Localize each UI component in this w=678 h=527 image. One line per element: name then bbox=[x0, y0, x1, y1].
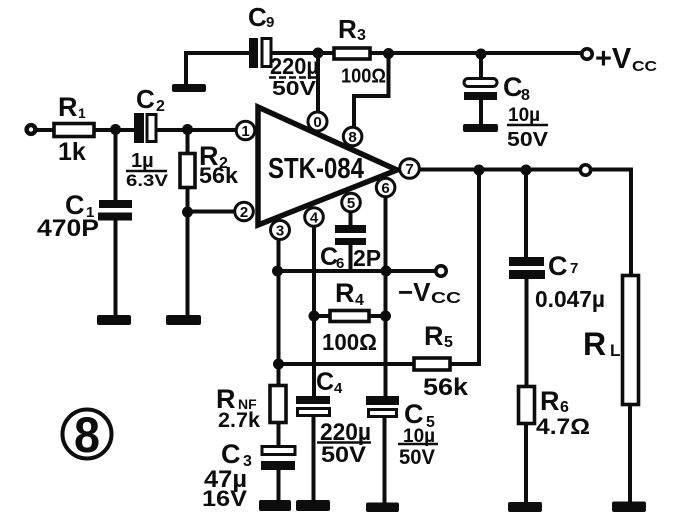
svg-text:1k: 1k bbox=[58, 138, 86, 166]
svg-text:8: 8 bbox=[74, 407, 100, 463]
svg-text:4: 4 bbox=[355, 292, 364, 309]
svg-text:1: 1 bbox=[78, 105, 86, 121]
svg-text:10µ: 10µ bbox=[508, 105, 540, 126]
svg-text:C: C bbox=[503, 72, 523, 102]
svg-text:CC: CC bbox=[632, 58, 657, 75]
svg-text:5: 5 bbox=[347, 195, 355, 212]
svg-text:50V: 50V bbox=[399, 446, 435, 469]
svg-text:8: 8 bbox=[348, 129, 356, 146]
svg-text:470P: 470P bbox=[37, 215, 99, 242]
svg-text:6: 6 bbox=[381, 180, 389, 197]
svg-text:0.047µ: 0.047µ bbox=[535, 286, 605, 312]
svg-text:6.3V: 6.3V bbox=[126, 171, 169, 190]
svg-text:9: 9 bbox=[266, 14, 274, 31]
svg-text:4: 4 bbox=[310, 210, 319, 227]
svg-text:1µ: 1µ bbox=[131, 150, 154, 172]
svg-text:220µ: 220µ bbox=[270, 53, 319, 79]
svg-text:0: 0 bbox=[313, 114, 321, 131]
svg-text:R: R bbox=[58, 92, 78, 122]
svg-text:2: 2 bbox=[156, 98, 165, 115]
svg-text:C: C bbox=[404, 399, 424, 429]
svg-text:C: C bbox=[221, 439, 241, 469]
svg-text:R: R bbox=[335, 278, 355, 308]
svg-text:6: 6 bbox=[336, 255, 344, 272]
svg-text:50V: 50V bbox=[272, 78, 317, 100]
svg-text:1: 1 bbox=[241, 123, 249, 140]
svg-text:2.7k: 2.7k bbox=[218, 409, 260, 432]
svg-text:5: 5 bbox=[444, 334, 453, 351]
svg-text:C: C bbox=[136, 84, 155, 114]
svg-text:C: C bbox=[548, 251, 568, 281]
svg-text:56k: 56k bbox=[199, 163, 239, 188]
svg-text:7: 7 bbox=[405, 161, 413, 178]
svg-text:C: C bbox=[248, 2, 267, 32]
svg-text:L: L bbox=[610, 341, 620, 360]
svg-text:STK-084: STK-084 bbox=[268, 153, 364, 185]
svg-text:R: R bbox=[424, 321, 444, 351]
svg-text:CC: CC bbox=[431, 290, 462, 307]
svg-text:2: 2 bbox=[240, 204, 248, 221]
svg-text:4: 4 bbox=[334, 380, 343, 397]
svg-text:100Ω: 100Ω bbox=[341, 66, 386, 88]
svg-text:+V: +V bbox=[595, 43, 632, 75]
svg-text:4.7Ω: 4.7Ω bbox=[536, 414, 590, 439]
svg-text:7: 7 bbox=[570, 260, 578, 277]
svg-text:R: R bbox=[338, 14, 357, 44]
svg-text:2P: 2P bbox=[353, 245, 381, 271]
svg-text:R: R bbox=[540, 386, 560, 416]
svg-text:R: R bbox=[583, 326, 606, 362]
svg-text:10µ: 10µ bbox=[403, 426, 435, 447]
svg-text:3: 3 bbox=[276, 223, 284, 240]
svg-text:8: 8 bbox=[521, 87, 530, 104]
svg-text:3: 3 bbox=[357, 27, 366, 44]
svg-text:−V: −V bbox=[398, 277, 431, 307]
svg-text:50V: 50V bbox=[507, 129, 549, 151]
svg-text:50V: 50V bbox=[321, 442, 366, 467]
svg-text:56k: 56k bbox=[423, 374, 469, 401]
svg-text:100Ω: 100Ω bbox=[322, 329, 377, 355]
svg-text:C: C bbox=[316, 368, 334, 396]
svg-text:16V: 16V bbox=[202, 486, 247, 511]
